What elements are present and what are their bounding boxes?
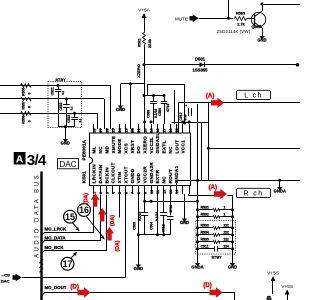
- capacitor C588: [150, 96, 157, 125]
- label (DA) 1: [83, 193, 89, 204]
- wire ROUT line: [189, 195, 215, 197]
- wire MO_BCK: [42, 195, 107, 254]
- label C588: [147, 110, 151, 118]
- box DAC: [58, 159, 79, 170]
- svg-text:GNDA: GNDA: [274, 189, 286, 194]
- node C589 top: [163, 94, 166, 97]
- label A page ref: [14, 152, 26, 165]
- node right end of D501 line: [296, 63, 300, 67]
- label R557: [21, 101, 25, 109]
- svg-text:R ch: R ch: [244, 191, 264, 198]
- svg-text:MODE: MODE: [117, 138, 122, 153]
- label C523 value: [78, 118, 82, 122]
- arrow (A) R ch: [214, 189, 227, 199]
- svg-text:47/16: 47/16: [166, 104, 170, 112]
- label STBY bottom: [212, 255, 223, 259]
- wire CS beyond bus: [41, 277, 125, 279]
- wire bridge over pins: [148, 85, 185, 123]
- label R561: [138, 38, 142, 47]
- ground GND mid-bottom: [134, 265, 143, 272]
- label 2SD2114K (VW): [217, 29, 251, 34]
- svg-text:MO_BCK: MO_BCK: [45, 245, 65, 250]
- svg-text:LRCKIN: LRCKIN: [92, 164, 97, 184]
- node y201 at pin10: [150, 200, 153, 203]
- resistor R535: [198, 241, 233, 244]
- wire mid vertical x=197.5 upper: [197, 104, 199, 180]
- svg-text:XZERO: XZERO: [143, 136, 148, 154]
- label C521: [51, 87, 55, 95]
- svg-text:1: 1: [224, 212, 226, 216]
- box L ch: [237, 90, 271, 99]
- wire collector up: [262, 4, 264, 11]
- svg-text:47/16: 47/16: [169, 205, 173, 213]
- resistor R533: [198, 227, 233, 230]
- svg-text:MO_DOUT: MO_DOUT: [45, 285, 67, 290]
- node collector junction: [261, 3, 264, 6]
- resistor R565: [234, 17, 248, 21]
- callout 16 leader: [86, 216, 105, 240]
- svg-text:C511: C511: [201, 245, 209, 249]
- svg-text:224: 224: [224, 245, 230, 249]
- resistor R532: [198, 216, 233, 219]
- svg-text:47/P: 47/P: [183, 113, 187, 121]
- node R532 left: [196, 215, 199, 218]
- node R535 left: [196, 240, 199, 243]
- svg-text:15: 15: [65, 212, 75, 222]
- wire input row R558: [0, 113, 48, 115]
- label C521 value: [61, 90, 65, 94]
- svg-text:0: 0: [28, 106, 32, 108]
- label C590: [179, 112, 183, 120]
- svg-text:XZERO: XZERO: [136, 64, 141, 78]
- wire MO_LRCK: [42, 195, 94, 236]
- svg-text:C512: C512: [179, 112, 183, 120]
- svg-text:C522: C522: [59, 102, 63, 110]
- label 22.6k: [148, 39, 152, 48]
- svg-text:V+5S: V+5S: [281, 284, 293, 290]
- ground GND under rail: [228, 263, 237, 270]
- wire XZERO to D501 line: [144, 64, 298, 66]
- svg-text:PE8001A: PE8001A: [81, 139, 87, 160]
- node XRST junction: [129, 82, 132, 85]
- wire V+5A to R561: [144, 18, 146, 32]
- svg-text:222: 222: [224, 231, 230, 235]
- svg-text:(DA): (DA): [115, 240, 121, 251]
- svg-text:GNDA2R: GNDA2R: [149, 162, 154, 184]
- label R5xx bottom: [267, 295, 272, 300]
- label C505 value: [138, 212, 142, 221]
- svg-text:R565: R565: [236, 11, 245, 15]
- node C511 left: [196, 247, 199, 250]
- label R535 value: [224, 238, 230, 242]
- wire top collector rail y=4: [262, 4, 300, 6]
- callout 17: [61, 257, 74, 270]
- svg-text:A: A: [16, 153, 24, 165]
- label C522 value: [70, 106, 74, 110]
- wire MO_DATA: [42, 195, 101, 245]
- wire row3 corner to pin 27: [97, 113, 99, 129]
- label R534 value: [224, 231, 230, 235]
- svg-text:222: 222: [224, 238, 230, 242]
- IC501 pin numbers: [92, 127, 180, 194]
- label (DA) 3: [115, 240, 121, 251]
- node C522 top: [65, 98, 68, 101]
- label C589 value: [166, 104, 170, 112]
- svg-text:1: 1: [224, 205, 226, 209]
- label MO_DATA: [45, 236, 67, 241]
- svg-text:BCKIN: BCKIN: [104, 167, 109, 184]
- label C504: [149, 222, 153, 230]
- ground GND under Q501: [257, 36, 266, 43]
- diode D501: [200, 62, 205, 67]
- label Q501: [252, 25, 261, 29]
- svg-text:GND: GND: [180, 220, 189, 225]
- wire XTIN riser long: [119, 194, 121, 218]
- node GNDA rail right: [278, 179, 281, 182]
- label C589: [158, 108, 162, 116]
- label R533 value: [224, 224, 230, 228]
- label C512: [162, 224, 166, 232]
- wire row2 through box: [48, 98, 104, 100]
- wire MUTE to R565: [199, 18, 233, 20]
- node y201 at rail: [196, 200, 199, 203]
- IC501 pin names: [92, 133, 186, 184]
- node line148 junction: [207, 147, 210, 150]
- svg-text:NC: NC: [162, 176, 167, 184]
- IC501 pin stubs: [94, 124, 190, 194]
- node R531 left: [196, 208, 199, 211]
- capacitor C511: [198, 246, 233, 251]
- svg-text:STBY: STBY: [212, 255, 223, 259]
- svg-text:1SS355: 1SS355: [193, 68, 209, 73]
- callout 15 leader: [73, 223, 80, 232]
- svg-text:DAC: DAC: [59, 160, 76, 169]
- wire emitter down: [262, 28, 264, 36]
- svg-text:R532: R532: [201, 213, 209, 217]
- wire R561 down XZERO net: [144, 46, 146, 130]
- svg-text:2SD2114K (VW): 2SD2114K (VW): [217, 29, 251, 34]
- svg-text:MUTE: MUTE: [175, 16, 188, 21]
- svg-text:GND: GND: [228, 265, 237, 270]
- label MO_DOUT: [45, 285, 67, 290]
- svg-text:22.6k: 22.6k: [148, 39, 152, 48]
- svg-text:VDD: VDD: [136, 172, 141, 183]
- node C521 top: [57, 84, 60, 87]
- wire ROUT drop: [188, 194, 190, 196]
- wire XCS riser: [125, 194, 127, 278]
- svg-text:+: +: [185, 104, 187, 108]
- power V+5S a: [267, 271, 279, 295]
- label 2.7k: [237, 22, 245, 26]
- label (A) left: [206, 93, 215, 100]
- svg-text:GND: GND: [61, 141, 70, 146]
- ground GNDA under rail: [191, 263, 203, 270]
- svg-text:222: 222: [224, 224, 230, 228]
- node R531 right: [231, 208, 234, 211]
- svg-text:GND: GND: [134, 266, 143, 271]
- wire line y=148.3: [208, 148, 300, 150]
- arrow (DA) 2: [98, 208, 107, 222]
- label R534: [201, 231, 209, 235]
- wire XRST drop to pin 22: [130, 84, 132, 129]
- wire GND stub at x=120.5: [120, 84, 122, 106]
- svg-text:MD: MD: [104, 145, 109, 153]
- wire row1 corner to pin 25: [110, 86, 112, 130]
- svg-text:10: 10: [149, 190, 154, 194]
- wire stub up from MUTE node: [228, 0, 230, 18]
- svg-text:R561: R561: [138, 38, 142, 47]
- capacitor C589: [161, 96, 168, 125]
- node C511 right: [231, 247, 234, 250]
- ground GND under EXTR: [180, 219, 189, 226]
- label (D) 1: [70, 284, 79, 291]
- svg-text:R557: R557: [21, 101, 25, 109]
- power V+5S b: [281, 284, 293, 300]
- svg-text:0: 0: [28, 93, 32, 95]
- wire R565 to base: [248, 18, 255, 20]
- wire input row R556: [0, 85, 48, 87]
- resistor R561: [143, 31, 146, 47]
- power V+5A: [138, 8, 151, 19]
- arrow (DA) 1: [91, 193, 100, 207]
- svg-text:(DA): (DA): [110, 215, 116, 226]
- dashed box STBY2: [196, 220, 236, 254]
- svg-text:R531: R531: [201, 206, 209, 210]
- capacitor C521: [55, 86, 62, 127]
- svg-text:IC501: IC501: [82, 171, 87, 183]
- capacitor C522: [63, 99, 70, 127]
- node C523 top: [73, 112, 76, 115]
- label D501: [195, 56, 206, 61]
- wire cap rail y=95.5: [144, 95, 165, 97]
- wire y=201.2 line: [145, 201, 198, 203]
- label R531 value: [224, 205, 226, 209]
- svg-text:C505: C505: [132, 222, 136, 230]
- node GNDA rail left: [196, 179, 199, 182]
- label C590 value: [183, 113, 187, 121]
- label DAC source: [1, 278, 10, 283]
- node rail123 junction: [183, 122, 186, 125]
- label MO_LRCK: [45, 227, 68, 232]
- svg-text:GNDA: GNDA: [191, 265, 203, 270]
- svg-text:20: 20: [142, 128, 147, 132]
- wire LOUT riser: [178, 102, 180, 133]
- node MUTE junction: [227, 17, 230, 20]
- label 3/4: [27, 152, 47, 169]
- svg-text:VCC2R: VCC2R: [143, 166, 148, 184]
- label R531: [201, 206, 209, 210]
- node C588 top: [152, 94, 155, 97]
- label R557 value: [28, 106, 32, 108]
- node R535 right: [231, 240, 234, 243]
- label C504 value: [155, 212, 159, 221]
- label C512 value: [169, 205, 173, 213]
- svg-text:C504: C504: [149, 222, 153, 230]
- svg-text:R535: R535: [201, 238, 209, 242]
- label CS: [0, 272, 10, 277]
- wire after-arrow corner: [228, 196, 233, 210]
- callout 16: [78, 204, 91, 217]
- svg-text:2.7k: 2.7k: [237, 22, 245, 26]
- svg-text:27: 27: [98, 128, 103, 132]
- wire CS to bus: [22, 277, 42, 279]
- svg-text:MO_DATA: MO_DATA: [45, 236, 67, 241]
- label MO_BCK: [45, 245, 65, 250]
- svg-text:(A): (A): [206, 93, 215, 100]
- resistor R558: [20, 112, 33, 116]
- label R558: [21, 115, 25, 123]
- svg-text:L ch: L ch: [244, 93, 263, 100]
- arrow (DA) 3: [105, 227, 114, 241]
- box R ch: [237, 188, 271, 197]
- svg-text:0.1: 0.1: [70, 106, 74, 110]
- resistor R556: [20, 84, 33, 88]
- signal arrow MUTE: [190, 15, 199, 23]
- svg-text:R534: R534: [201, 231, 209, 235]
- label R532 value: [224, 212, 226, 216]
- label (A) right: [209, 184, 218, 191]
- net label XZERO: [136, 64, 141, 78]
- svg-text:STBY: STBY: [56, 78, 67, 82]
- svg-text:7: 7: [130, 192, 135, 194]
- svg-text:XTOUT: XTOUT: [123, 166, 128, 183]
- resistor R531: [198, 209, 233, 212]
- wire GNDA stub: [279, 180, 281, 187]
- label AUDIO DATA BUS: [35, 173, 41, 258]
- svg-text:→CS: →CS: [0, 272, 10, 277]
- svg-text:GND: GND: [116, 107, 125, 112]
- wire L ch line: [178, 102, 300, 104]
- svg-text:GNDA2L: GNDA2L: [155, 133, 160, 154]
- label R535: [201, 238, 209, 242]
- node R534 right: [231, 233, 234, 236]
- svg-text:EXTR: EXTR: [155, 169, 160, 183]
- svg-text:AUDIO DATA BUS: AUDIO DATA BUS: [35, 173, 41, 258]
- svg-text:C512: C512: [162, 224, 166, 232]
- wire EXTL riser: [174, 90, 176, 124]
- label R556: [21, 88, 25, 96]
- wire GNDA1 pin drop: [176, 180, 178, 194]
- wire GNDA rail y=180.3: [176, 180, 300, 182]
- wire EXTR ground drop: [184, 194, 186, 219]
- resistor R557: [20, 98, 33, 101]
- svg-text:NC: NC: [168, 146, 173, 154]
- label C523: [67, 115, 71, 123]
- node rail234 b: [156, 233, 159, 236]
- wire input row R557: [0, 98, 48, 100]
- svg-text:(DA): (DA): [83, 193, 89, 204]
- node XZERO junction: [143, 63, 146, 66]
- svg-text:(A): (A): [209, 184, 218, 191]
- svg-text:GNDD: GNDD: [130, 168, 135, 183]
- resistor R534: [198, 234, 233, 237]
- svg-text:VCC1: VCC1: [181, 140, 186, 154]
- ground GND under STBY caps: [61, 139, 70, 146]
- dashed box STBY caps: [48, 82, 82, 128]
- svg-text:CLKOUT: CLKOUT: [111, 162, 116, 183]
- net label MUTE: [175, 16, 188, 21]
- svg-text:MO_LRCK: MO_LRCK: [45, 227, 68, 232]
- wire right rail x=232.5: [232, 210, 234, 263]
- svg-text:17: 17: [63, 259, 73, 269]
- wire cap common rail: [58, 126, 75, 128]
- svg-text:XTIN: XTIN: [117, 171, 122, 183]
- node pin top dots: [143, 121, 190, 124]
- wire C590 box right edge: [208, 102, 210, 180]
- svg-text:XCS: XCS: [123, 143, 128, 154]
- label (DA) 2: [110, 215, 116, 226]
- capacitor C590: [185, 104, 191, 116]
- node R533 left: [196, 226, 199, 229]
- svg-text:0: 0: [28, 120, 32, 122]
- label C522: [59, 102, 63, 110]
- node cap rail junction: [64, 125, 67, 128]
- wire left rail x=197.5: [197, 180, 199, 263]
- label C511 value: [224, 245, 230, 249]
- svg-text:R533: R533: [201, 224, 209, 228]
- svg-text:DO: DO: [136, 146, 141, 154]
- svg-text:EXTL: EXTL: [162, 140, 167, 153]
- node R533 right: [231, 226, 234, 229]
- svg-text:C588: C588: [147, 110, 151, 118]
- op-amp IC501 body: [90, 133, 191, 186]
- wire VDD drop: [138, 194, 140, 265]
- capacitor C504: [160, 194, 167, 235]
- transistor Q501: [251, 11, 265, 28]
- bus AUDIO DATA BUS line: [40, 172, 42, 300]
- capacitor C523: [71, 113, 78, 126]
- wire mid vertical x=201.7: [201, 123, 203, 180]
- svg-text:NC: NC: [98, 146, 103, 154]
- svg-text:17: 17: [161, 128, 166, 132]
- svg-text:R558: R558: [21, 115, 25, 123]
- callout 17 leader: [71, 252, 78, 259]
- bus tap slashes: [39, 259, 43, 272]
- arrow (A) L ch: [211, 98, 224, 108]
- label C505: [132, 222, 136, 230]
- label C511: [201, 245, 209, 249]
- svg-text:LOUT: LOUT: [174, 140, 179, 154]
- wire row2 corner to pin 26: [104, 99, 106, 129]
- label IC501: [82, 171, 87, 183]
- svg-text:D501: D501: [195, 56, 206, 61]
- label (D) 2: [203, 282, 212, 289]
- node R534 left: [196, 233, 199, 236]
- svg-text:V+5S: V+5S: [267, 271, 279, 277]
- label R532: [201, 213, 209, 217]
- node y201 at pin9: [143, 200, 146, 203]
- svg-text:16: 16: [79, 205, 89, 215]
- svg-text:XMUTE: XMUTE: [111, 136, 116, 154]
- node rail234 a: [137, 233, 140, 236]
- svg-text:(D): (D): [70, 284, 79, 291]
- label C588 value: [154, 109, 158, 118]
- label R556 value: [28, 93, 32, 95]
- label PE8001A: [81, 139, 87, 160]
- svg-text:0.1: 0.1: [78, 118, 82, 122]
- callout 15: [64, 210, 77, 223]
- svg-text:3/4: 3/4: [27, 152, 47, 169]
- label STBY top: [56, 78, 67, 82]
- svg-text:XRST: XRST: [130, 140, 135, 154]
- label R565: [236, 11, 245, 15]
- label R558 value: [28, 120, 32, 122]
- arrow (D) 1: [78, 287, 91, 297]
- ground GNDA right: [274, 187, 286, 194]
- svg-text:R556: R556: [21, 88, 25, 96]
- svg-text:(D): (D): [203, 282, 212, 289]
- label 1SS355: [193, 68, 209, 73]
